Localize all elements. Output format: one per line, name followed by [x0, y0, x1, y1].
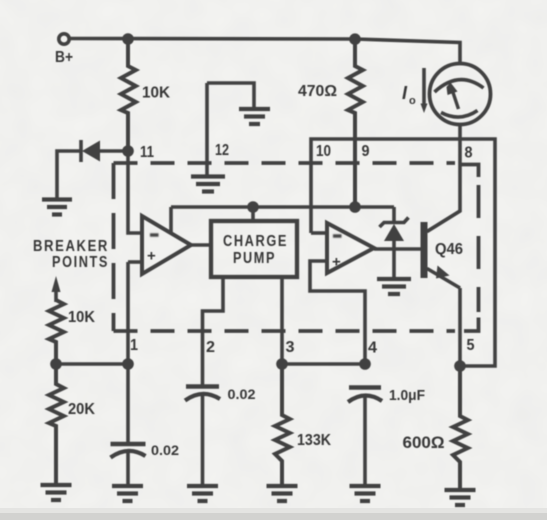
ground of diode	[42, 200, 72, 215]
ammeter M1	[430, 64, 491, 125]
wire U1 plus input	[128, 260, 142, 264]
label minus U2	[333, 234, 342, 237]
capacitor C1 0.02 pin1	[111, 442, 146, 446]
wire emitter to pin 5	[458, 288, 462, 366]
Q46 collector	[427, 211, 460, 232]
resistor R2 470ohm	[348, 39, 363, 207]
dashed IC boundary top-right corner	[462, 165, 479, 178]
resistor R6 600ohm	[453, 366, 468, 489]
dashed IC boundary left	[112, 163, 116, 331]
junction on rail at 470	[349, 33, 361, 45]
svg-text:+: +	[147, 248, 156, 265]
ground node 12 lower	[191, 177, 225, 192]
svg-text:POINTS: POINTS	[52, 254, 109, 271]
node 11 junction	[122, 145, 134, 157]
wire U1 output	[191, 243, 211, 247]
svg-text:PUMP: PUMP	[233, 250, 276, 267]
svg-text:BREAKER: BREAKER	[33, 238, 109, 255]
svg-text:20K: 20K	[68, 401, 95, 418]
Q46 emitter	[427, 269, 460, 289]
charge pump box	[211, 221, 297, 277]
ground of C1	[112, 486, 143, 501]
arrow Io	[422, 68, 426, 106]
ground of 133K	[267, 486, 298, 501]
svg-text:11: 11	[140, 144, 154, 161]
wire B+ top rail	[70, 39, 461, 65]
svg-text:0.02: 0.02	[151, 443, 179, 458]
svg-text:CHARGE: CHARGE	[223, 233, 288, 250]
capacitor C3 1.0uF	[349, 385, 381, 389]
wire pin 2	[203, 277, 224, 385]
wire node 12 vertical	[205, 83, 209, 175]
svg-text:o: o	[409, 95, 416, 107]
bottom gray band	[0, 508, 547, 514]
resistor R4 20K	[49, 364, 64, 483]
dashed IC boundary right	[477, 185, 481, 312]
svg-text:2: 2	[206, 339, 215, 356]
resistor R5 133K	[275, 364, 290, 484]
transistor Q46 base bar	[421, 222, 428, 278]
wire pin10 stub to op-amp2 minus	[311, 231, 327, 235]
ground of C2	[187, 486, 218, 501]
wire pin10 to feedback rail and right side to pin5	[311, 139, 495, 366]
svg-text:470Ω: 470Ω	[298, 83, 337, 100]
ground of 600ohm	[445, 490, 476, 505]
svg-text:600Ω: 600Ω	[403, 434, 445, 452]
svg-text:12: 12	[215, 142, 229, 159]
svg-text:3: 3	[286, 339, 295, 356]
op-amp U2	[327, 223, 374, 273]
op-amp U1	[142, 216, 191, 274]
svg-text:1.0μF: 1.0μF	[389, 387, 425, 404]
svg-text:9: 9	[362, 143, 370, 160]
wire pin3 to pin4	[282, 362, 365, 366]
dashed IC boundary bottom-right corner	[464, 318, 479, 332]
dashed IC boundary top	[114, 161, 456, 165]
wire top net opamp1-chargepump-pin9-zener	[171, 205, 394, 209]
resistor R3 10K breaker	[49, 300, 64, 364]
wire pin 4 to op-amp2 plus	[310, 261, 365, 364]
wire U1 feedback stub	[169, 207, 173, 232]
label minus U1	[150, 233, 159, 236]
svg-text:0.02: 0.02	[228, 387, 256, 402]
junction on rail at 10K	[122, 33, 134, 45]
resistor R1 10K top	[121, 39, 136, 151]
ground of zener	[377, 279, 411, 294]
svg-text:10K: 10K	[142, 85, 170, 102]
capacitor C2 0.02 pin2	[186, 384, 219, 388]
ground node 12 upper	[239, 109, 270, 124]
svg-text:133K: 133K	[297, 432, 331, 449]
wire U2 output to Q46 base	[374, 247, 421, 251]
svg-text:4: 4	[368, 340, 377, 357]
breaker points arrow	[54, 289, 58, 302]
wire node 12 top branch	[207, 83, 254, 107]
wire node 11 to op-amp1 minus input	[128, 151, 142, 233]
wire pin 3	[280, 277, 284, 364]
dashed IC boundary bottom	[114, 329, 456, 333]
zener diode Z1	[392, 207, 396, 222]
ground of 20K	[41, 485, 72, 500]
svg-text:5: 5	[467, 337, 475, 354]
svg-text:8: 8	[465, 145, 473, 162]
ground of C3	[350, 486, 381, 501]
svg-text:10K: 10K	[68, 309, 95, 326]
svg-text:Q46: Q46	[435, 241, 463, 258]
wire meter bottom to Q46 collector (pin 8)	[427, 125, 460, 232]
svg-text:1: 1	[130, 337, 138, 354]
svg-text:10: 10	[316, 143, 331, 160]
diode D1	[100, 149, 128, 153]
terminal B+	[59, 34, 69, 44]
wire pin 1	[126, 262, 130, 442]
svg-text:B+: B+	[55, 49, 73, 66]
svg-text:+: +	[332, 254, 341, 271]
wire breaker node to pin1 node	[56, 362, 128, 366]
